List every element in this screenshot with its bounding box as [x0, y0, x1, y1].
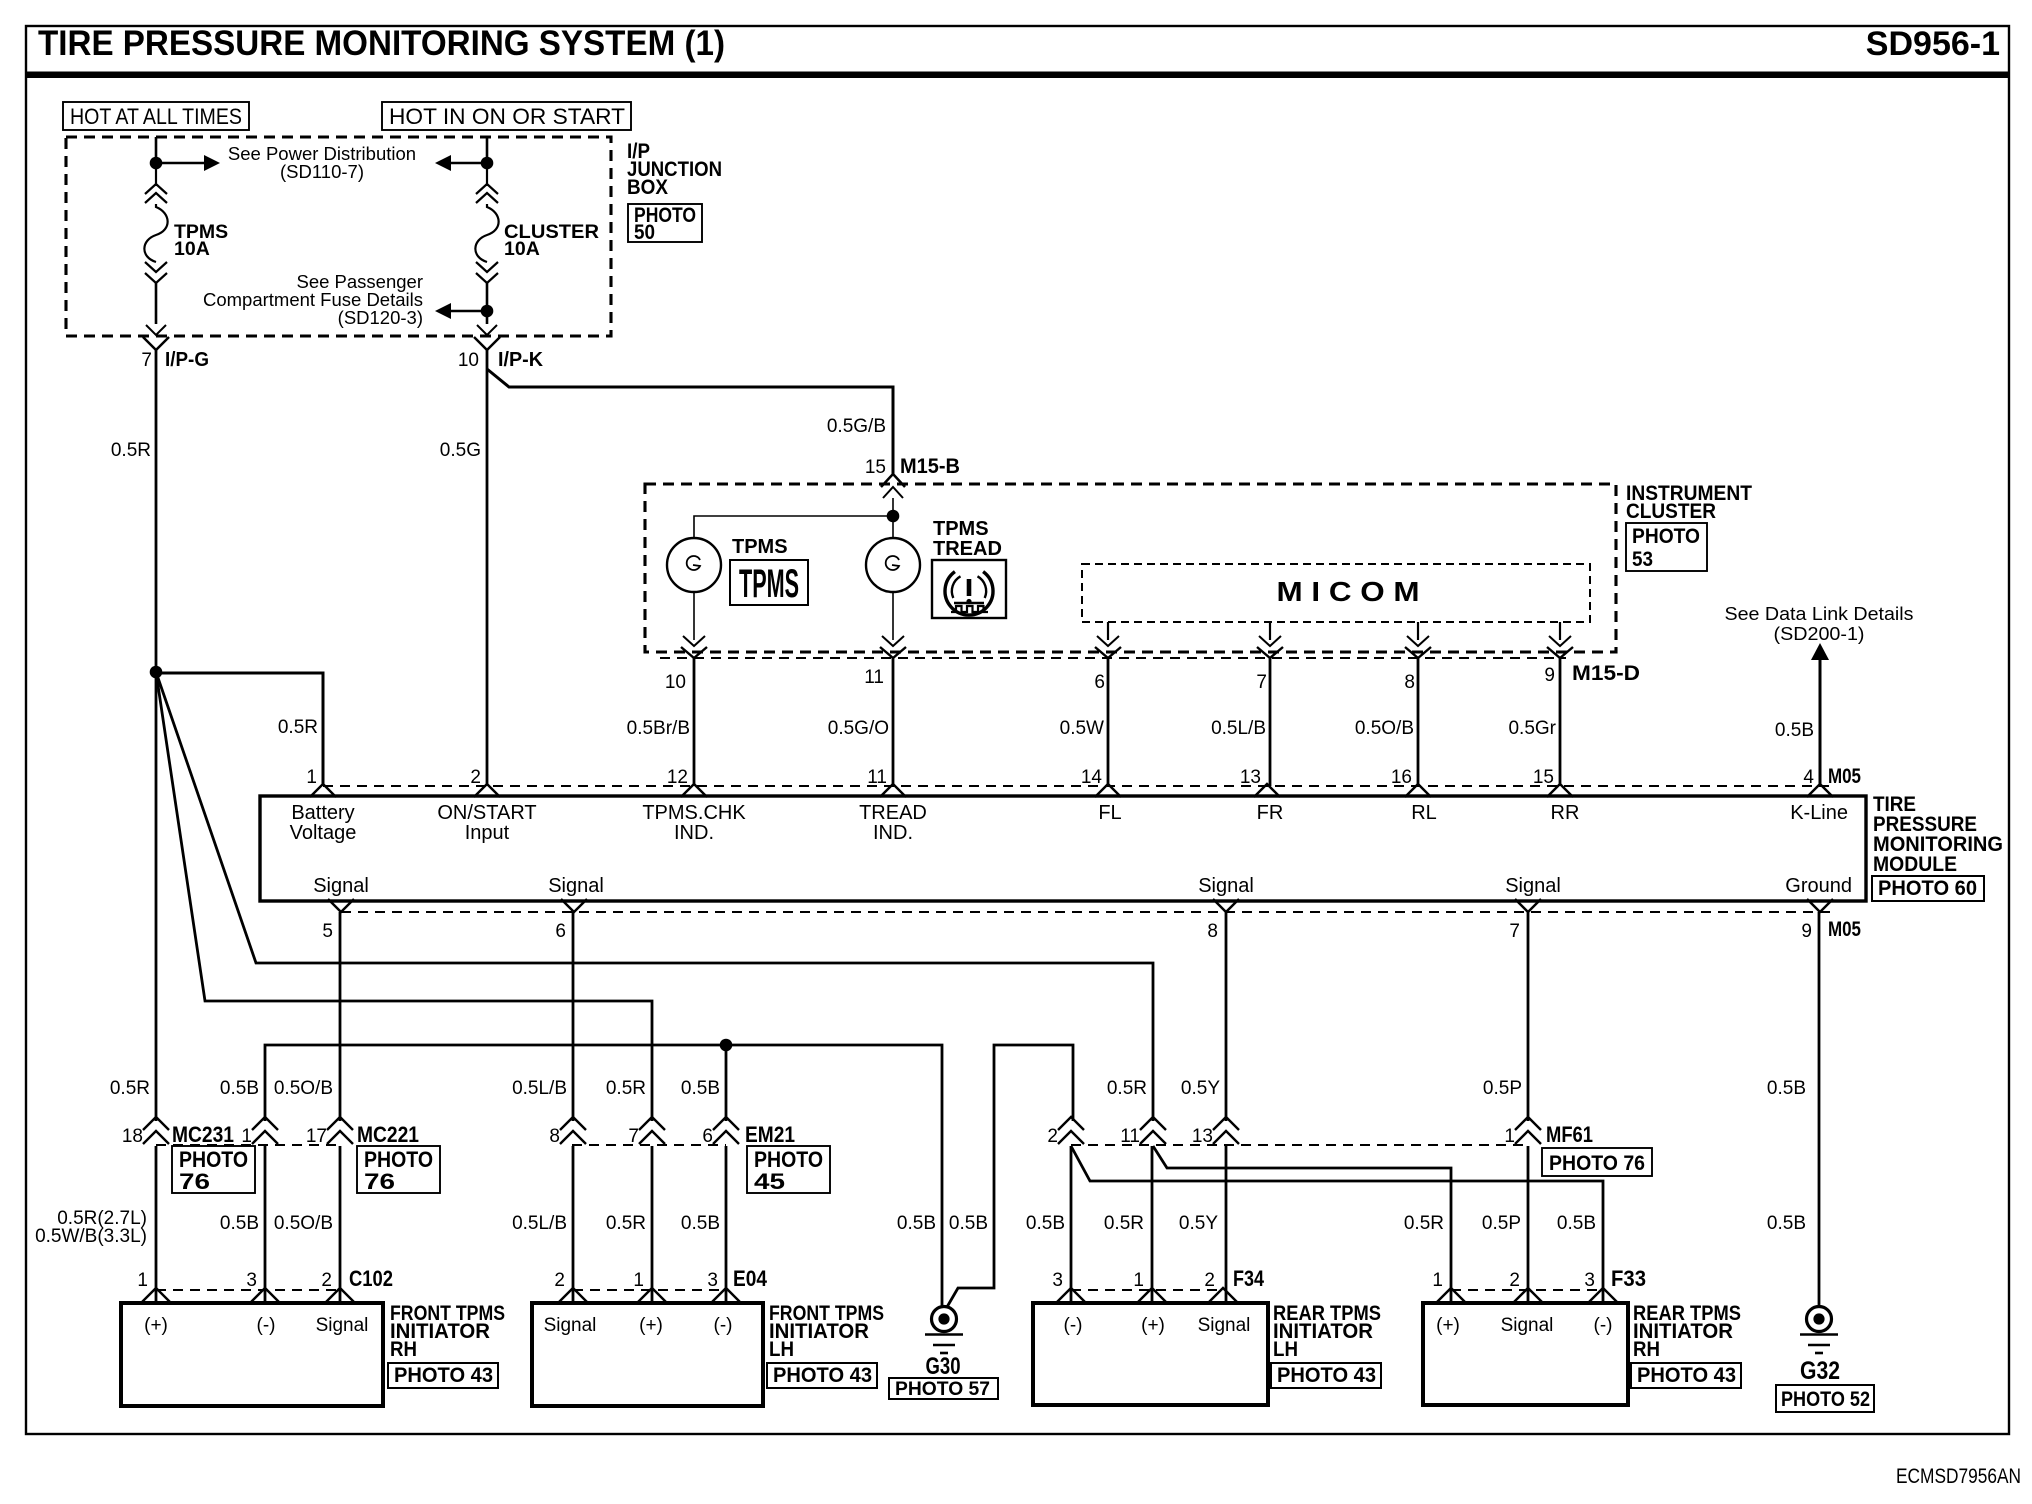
svg-text:11: 11 — [1120, 1126, 1140, 1147]
connector chevron pin 13 — [1213, 1117, 1239, 1130]
connector chevron pin 6 — [713, 1117, 739, 1130]
wire — [892, 522, 894, 539]
ground G32 symbol — [1807, 1307, 1832, 1332]
wire — [486, 283, 489, 305]
svg-text:TPMS.CHK: TPMS.CHK — [642, 802, 746, 824]
connector row M05 top (dashed) — [323, 785, 1832, 787]
svg-text:CLUSTER: CLUSTER — [1626, 500, 1716, 523]
svg-text:IND.: IND. — [674, 822, 714, 844]
wire EM21 p6 drop — [725, 1146, 728, 1303]
wire MF61 pin2 to F33 pin3 — [1071, 1146, 1603, 1303]
junction dot lamp feed — [887, 510, 900, 523]
svg-text:M15-D: M15-D — [1572, 662, 1640, 685]
wire diagonal A to MF61 pin11 — [156, 672, 1153, 1121]
photo 45 box (EM21) — [747, 1146, 830, 1193]
svg-text:0.5B: 0.5B — [1557, 1213, 1596, 1234]
svg-text:0.5R: 0.5R — [606, 1213, 646, 1234]
svg-text:Ground: Ground — [1785, 875, 1852, 897]
connector row MF61 (dashed) — [1071, 1144, 1528, 1146]
wire — [486, 166, 488, 186]
svg-text:2: 2 — [554, 1270, 565, 1291]
wire — [155, 283, 158, 324]
svg-text:(+): (+) — [144, 1315, 168, 1336]
svg-text:Voltage: Voltage — [290, 822, 357, 844]
connector row E04 (dashed) — [573, 1289, 726, 1291]
TPMS module box U1 — [260, 796, 1866, 901]
wire 0.5G/B branch to M15-B — [487, 369, 893, 475]
module pin 2 chevron — [474, 784, 500, 797]
svg-text:Signal: Signal — [313, 875, 369, 897]
svg-text:M05: M05 — [1828, 918, 1861, 941]
svg-text:11: 11 — [867, 767, 887, 788]
svg-text:(-): (-) — [1594, 1315, 1613, 1336]
svg-text:0.5R: 0.5R — [110, 1078, 150, 1099]
connector chevron pin 11 — [1140, 1117, 1166, 1130]
svg-text:E04: E04 — [733, 1266, 768, 1291]
title divider rule — [26, 72, 2009, 79]
svg-text:0.5B: 0.5B — [681, 1213, 720, 1234]
svg-text:11: 11 — [864, 667, 884, 688]
wire — [892, 498, 894, 510]
connector chevron 2 — [325, 1288, 355, 1303]
connector I/P-K pin 10 — [477, 325, 497, 335]
junction dot on TPMS feed — [150, 157, 163, 170]
svg-text:0.5Y: 0.5Y — [1179, 1213, 1218, 1234]
connector chevron 3 — [1588, 1288, 1618, 1303]
svg-text:0.5O/B: 0.5O/B — [274, 1213, 333, 1234]
label HOT AT ALL TIMES — [63, 102, 249, 130]
svg-text:HOT AT ALL TIMES: HOT AT ALL TIMES — [70, 104, 242, 129]
svg-text:2: 2 — [1047, 1126, 1058, 1147]
svg-text:EM21: EM21 — [745, 1122, 795, 1147]
svg-text:8: 8 — [1404, 672, 1415, 693]
connector chevron 1 — [637, 1288, 667, 1303]
connector chevron M15-D — [1405, 647, 1431, 658]
connector chevron pin 1 — [1515, 1117, 1541, 1130]
module pin 16 chevron — [1405, 784, 1431, 797]
wire MC221 p7 drop — [651, 1146, 654, 1303]
svg-text:Input: Input — [465, 822, 510, 844]
module bottom pin 5 chevron — [328, 899, 354, 912]
svg-text:0.5R: 0.5R — [1404, 1213, 1444, 1234]
wire module pin7 to MF61 pin1 — [1527, 912, 1530, 1121]
svg-text:(SD110-7): (SD110-7) — [280, 161, 364, 182]
svg-text:0.5G: 0.5G — [440, 440, 481, 461]
svg-text:See Data Link Details: See Data Link Details — [1725, 603, 1914, 624]
svg-text:Signal: Signal — [1505, 875, 1561, 897]
svg-text:M15-B: M15-B — [900, 455, 960, 478]
connector chevron 3 — [1056, 1288, 1086, 1303]
module bottom pin 8 chevron — [1213, 899, 1239, 912]
svg-text:RH: RH — [390, 1338, 417, 1361]
svg-text:0.5P: 0.5P — [1482, 1213, 1521, 1234]
svg-text:0.5B: 0.5B — [1767, 1213, 1806, 1234]
module pin 13 chevron — [1254, 784, 1280, 797]
svg-text:0.5R: 0.5R — [1104, 1213, 1144, 1234]
instrument cluster box (dashed) — [645, 484, 1616, 652]
wire MF61 p11 drop — [1151, 1146, 1154, 1303]
connector chevron pin 17 — [327, 1117, 353, 1130]
connector chevron 2 — [1208, 1288, 1238, 1303]
svg-text:0.5B: 0.5B — [949, 1213, 988, 1234]
connector row MC231/MC221 (dashed) — [156, 1144, 339, 1146]
junction dot ground bus — [720, 1039, 733, 1052]
ground G30 symbol — [932, 1307, 957, 1332]
svg-text:Battery: Battery — [291, 802, 354, 824]
photo 52 box (G32) — [1776, 1385, 1874, 1412]
svg-text:0.5O/B: 0.5O/B — [1355, 718, 1414, 739]
svg-text:6: 6 — [702, 1126, 713, 1147]
svg-text:3: 3 — [707, 1270, 718, 1291]
svg-text:RR: RR — [1551, 802, 1580, 824]
svg-text:F33: F33 — [1611, 1266, 1646, 1291]
wire from TREAD lamp to pin — [892, 592, 894, 640]
svg-text:53: 53 — [1632, 548, 1653, 571]
svg-text:(-): (-) — [1064, 1315, 1083, 1336]
svg-text:14: 14 — [1081, 767, 1103, 788]
wire from MICOM RR output — [1559, 622, 1561, 640]
svg-text:0.5B: 0.5B — [220, 1078, 259, 1099]
svg-text:0.5W: 0.5W — [1060, 718, 1104, 739]
svg-text:TPMS: TPMS — [732, 536, 788, 558]
wire to TPMS lamp — [694, 516, 887, 539]
photo 57 box (G30) — [889, 1378, 998, 1399]
svg-text:TREAD: TREAD — [859, 802, 927, 824]
svg-text:7: 7 — [1509, 921, 1520, 942]
svg-text:RL: RL — [1411, 802, 1437, 824]
wire 0.5O/B — [1417, 658, 1420, 786]
svg-text:7: 7 — [628, 1126, 639, 1147]
svg-text:(SD200-1): (SD200-1) — [1774, 623, 1865, 644]
svg-text:8: 8 — [1207, 921, 1218, 942]
svg-text:7: 7 — [1256, 672, 1267, 693]
photo 76 box (MC231) — [172, 1146, 255, 1193]
svg-text:0.5L/B: 0.5L/B — [512, 1078, 567, 1099]
fuse CLUSTER 10A symbol — [476, 184, 498, 194]
wire MF61 p13 drop — [1225, 1146, 1228, 1303]
svg-text:0.5R: 0.5R — [606, 1078, 646, 1099]
svg-text:3: 3 — [1584, 1270, 1595, 1291]
svg-text:4: 4 — [1803, 767, 1814, 788]
module pin 15 chevron — [1547, 784, 1573, 797]
svg-text:1: 1 — [241, 1126, 252, 1147]
connector row F34 (dashed) — [1071, 1289, 1223, 1291]
photo 76 box (MF61) — [1542, 1148, 1652, 1176]
svg-text:Signal: Signal — [1501, 1315, 1554, 1336]
photo 76 box (MC221) — [357, 1146, 440, 1193]
connector chevron pin 18 — [143, 1117, 169, 1130]
svg-text:0.5R: 0.5R — [278, 717, 318, 738]
svg-text:15: 15 — [865, 457, 886, 478]
svg-text:2: 2 — [1204, 1270, 1215, 1291]
connector chevron M15-D — [1095, 647, 1121, 658]
junction dot SD120 tap — [481, 305, 494, 318]
fuse TPMS 10A symbol — [145, 184, 167, 194]
svg-text:BOX: BOX — [627, 176, 668, 199]
svg-text:18: 18 — [122, 1126, 143, 1147]
svg-text:0.5Br/B: 0.5Br/B — [627, 718, 690, 739]
connector chevron 1 — [141, 1288, 171, 1303]
module pin 11 chevron — [880, 784, 906, 797]
junction dot battery node — [150, 666, 163, 679]
connector chevron 2 — [558, 1288, 588, 1303]
svg-text:FL: FL — [1098, 802, 1121, 824]
connector row M15-D (dashed) — [660, 657, 1566, 659]
svg-text:0.5O/B: 0.5O/B — [274, 1078, 333, 1099]
svg-text:M I C O M: M I C O M — [1277, 576, 1420, 607]
module bottom pin 7 chevron — [1515, 899, 1541, 912]
svg-text:1: 1 — [1432, 1270, 1443, 1291]
wire 0.5Gr — [1559, 658, 1562, 786]
wire ground bus to G30 — [265, 1045, 942, 1308]
connector row F33 (dashed) — [1451, 1289, 1603, 1291]
module pin 4 chevron — [1807, 784, 1833, 797]
connector chevron M15-D — [1257, 647, 1283, 658]
svg-text:M05: M05 — [1828, 765, 1861, 788]
connector chevron 2 — [1513, 1288, 1543, 1303]
svg-text:(-): (-) — [257, 1315, 276, 1336]
svg-text:Signal: Signal — [544, 1315, 597, 1336]
svg-text:1: 1 — [633, 1270, 644, 1291]
svg-text:9: 9 — [1544, 665, 1555, 686]
module bottom pin 9 chevron — [1807, 899, 1833, 912]
wire 0.5G to module pin2 — [486, 350, 489, 786]
connector chevron 3 — [250, 1288, 280, 1303]
wire 0.5L/B — [1269, 658, 1272, 786]
svg-text:0.5R: 0.5R — [1107, 1078, 1147, 1099]
lamp TPMS indicator — [667, 538, 721, 592]
connector chevron 3 — [711, 1288, 741, 1303]
svg-text:HOT IN ON OR START: HOT IN ON OR START — [389, 104, 625, 129]
svg-text:17: 17 — [306, 1126, 327, 1147]
wire MF61 p1 drop — [1527, 1146, 1530, 1303]
connector chevron pin 1 — [252, 1117, 278, 1130]
arrow to fuse details (left) — [435, 303, 451, 319]
svg-text:PHOTO 43: PHOTO 43 — [773, 1364, 872, 1387]
svg-text:8: 8 — [549, 1126, 560, 1147]
svg-text:12: 12 — [667, 767, 688, 788]
svg-text:Signal: Signal — [1198, 1315, 1251, 1336]
photo 53 box — [1626, 523, 1707, 571]
svg-text:C102: C102 — [349, 1266, 393, 1291]
svg-text:LH: LH — [769, 1338, 794, 1361]
I/P junction box (dashed) — [66, 137, 611, 336]
connector chevron M15-D — [1547, 647, 1573, 658]
svg-text:PHOTO: PHOTO — [1632, 525, 1700, 548]
svg-text:0.5R: 0.5R — [111, 440, 151, 461]
connector chevron pin 2 — [1058, 1117, 1084, 1130]
svg-text:Signal: Signal — [316, 1315, 369, 1336]
wire module pin5 to MC221 pin17 — [339, 912, 342, 1121]
arrow from cluster feed (left) — [435, 155, 451, 171]
wire G30 second leg — [947, 1045, 1073, 1307]
wire — [155, 166, 157, 186]
svg-text:PHOTO 43: PHOTO 43 — [1277, 1364, 1376, 1387]
svg-text:IND.: IND. — [873, 822, 913, 844]
wire MC231 p1 drop — [264, 1146, 267, 1303]
wire 0.5Br/B — [693, 658, 696, 786]
svg-text:15: 15 — [1533, 767, 1554, 788]
svg-text:ON/START: ON/START — [437, 802, 536, 824]
svg-text:(+): (+) — [639, 1315, 663, 1336]
label box TPMS — [730, 560, 808, 605]
svg-text:76: 76 — [179, 1169, 210, 1194]
svg-text:LH: LH — [1273, 1338, 1298, 1361]
svg-text:TREAD: TREAD — [933, 538, 1002, 560]
connector chevron pin 7 — [639, 1117, 665, 1130]
wire 0.5G/O — [892, 658, 895, 786]
svg-text:76: 76 — [364, 1169, 395, 1194]
wire from TPMS lamp to pin — [693, 592, 695, 640]
svg-text:0.5L/B: 0.5L/B — [1211, 718, 1266, 739]
svg-text:TPMS: TPMS — [933, 518, 989, 540]
wire module pin9 to G32 — [1818, 912, 1821, 1308]
svg-text:1: 1 — [1504, 1126, 1515, 1147]
connector I/P-G pin 7 — [146, 325, 166, 335]
svg-text:I/P-G: I/P-G — [165, 349, 209, 371]
photo 43 box (LH front) — [767, 1363, 877, 1388]
wire from MICOM FR output — [1269, 622, 1271, 640]
svg-text:7: 7 — [141, 350, 152, 371]
module bottom pin 6 chevron — [561, 899, 587, 912]
svg-text:0.5B: 0.5B — [1026, 1213, 1065, 1234]
module pin 12 chevron — [681, 784, 707, 797]
wire from MICOM RL output — [1417, 622, 1419, 640]
svg-text:PHOTO 43: PHOTO 43 — [1637, 1364, 1736, 1387]
svg-text:3: 3 — [246, 1270, 257, 1291]
svg-text:1: 1 — [137, 1270, 148, 1291]
label HOT IN ON OR START — [382, 102, 631, 130]
wire diagonal B to MC221 pin7 — [156, 672, 652, 1121]
wire stub to fuse CLUSTER — [486, 137, 489, 160]
svg-text:50: 50 — [634, 221, 655, 244]
svg-text:SD956-1: SD956-1 — [1866, 25, 2000, 63]
connector row C102 (dashed) — [156, 1289, 339, 1291]
svg-text:2: 2 — [470, 767, 481, 788]
connector chevron M15-D — [681, 647, 707, 658]
svg-text:6: 6 — [1094, 672, 1105, 693]
svg-text:10A: 10A — [504, 238, 540, 260]
module pin 14 chevron — [1095, 784, 1121, 797]
svg-text:2: 2 — [1509, 1270, 1520, 1291]
svg-text:2: 2 — [321, 1270, 332, 1291]
svg-text:Signal: Signal — [548, 875, 604, 897]
photo 43 box (RH front) — [388, 1363, 498, 1388]
wire — [486, 317, 489, 324]
K-line wire with up arrow — [1811, 643, 1829, 660]
svg-text:(SD120-3): (SD120-3) — [338, 307, 423, 328]
wire EM21 p8 drop — [572, 1146, 575, 1303]
svg-text:MC231: MC231 — [172, 1122, 234, 1147]
connector row M05 bottom (dashed) — [341, 911, 1832, 913]
tread warning icon box — [932, 560, 1006, 618]
svg-text:0.5L/B: 0.5L/B — [512, 1213, 567, 1234]
svg-text:PHOTO 43: PHOTO 43 — [394, 1364, 493, 1387]
svg-text:0.5Y: 0.5Y — [1181, 1078, 1220, 1099]
svg-text:MODULE: MODULE — [1873, 853, 1957, 876]
svg-text:RH: RH — [1633, 1338, 1660, 1361]
front TPMS initiator LH box — [532, 1303, 763, 1406]
svg-text:13: 13 — [1192, 1126, 1213, 1147]
wire MC221 p17 drop — [339, 1146, 342, 1303]
svg-text:FR: FR — [1257, 802, 1284, 824]
wire 0.5W — [1107, 658, 1110, 786]
svg-text:0.5B: 0.5B — [681, 1078, 720, 1099]
svg-text:16: 16 — [1391, 767, 1412, 788]
svg-text:10: 10 — [458, 350, 479, 371]
photo 43 box (RH rear) — [1631, 1363, 1741, 1388]
svg-text:45: 45 — [754, 1169, 785, 1194]
wire from MICOM FL output — [1107, 622, 1109, 640]
svg-text:10: 10 — [665, 672, 686, 693]
svg-text:3: 3 — [1052, 1270, 1063, 1291]
wire battery to module pin1 — [156, 673, 323, 786]
svg-text:G30: G30 — [926, 1353, 961, 1380]
svg-text:PHOTO 52: PHOTO 52 — [1781, 1388, 1870, 1411]
wire EM21 pin6 drop — [725, 1045, 728, 1121]
connector chevron 1 — [1137, 1288, 1167, 1303]
svg-text:0.5Gr: 0.5Gr — [1508, 718, 1556, 739]
photo 50 box — [628, 204, 702, 242]
connector row EM21 (dashed) — [572, 1144, 726, 1146]
junction dot on CLUSTER feed — [481, 157, 494, 170]
svg-text:I/P-K: I/P-K — [498, 349, 544, 371]
connector chevron pin 8 — [560, 1117, 586, 1130]
wire MF61 p2 drop — [1070, 1146, 1073, 1303]
svg-text:(-): (-) — [714, 1315, 733, 1336]
svg-text:0.5P: 0.5P — [1483, 1078, 1522, 1099]
svg-text:0.5G/B: 0.5G/B — [827, 416, 886, 437]
wire 0.5R main left — [155, 350, 158, 1121]
wire module pin6 to EM21 pin8 — [572, 912, 575, 1121]
svg-text:13: 13 — [1240, 767, 1261, 788]
svg-text:0.5W/B(3.3L): 0.5W/B(3.3L) — [35, 1226, 147, 1247]
wire module pin8 to MF61 pin13 — [1225, 912, 1228, 1121]
rear TPMS initiator LH box — [1033, 1303, 1268, 1405]
photo 60 box — [1872, 876, 1984, 901]
svg-text:TIRE PRESSURE MONITORING SYSTE: TIRE PRESSURE MONITORING SYSTEM (1) — [38, 23, 725, 63]
photo 43 box (LH rear) — [1271, 1363, 1381, 1388]
svg-text:(+): (+) — [1436, 1315, 1460, 1336]
svg-text:0.5B: 0.5B — [1775, 720, 1814, 741]
wire stub to fuse TPMS — [155, 137, 158, 160]
svg-text:PHOTO 57: PHOTO 57 — [895, 1378, 990, 1400]
svg-text:F34: F34 — [1233, 1266, 1265, 1291]
svg-text:0.5G/O: 0.5G/O — [828, 718, 889, 739]
svg-text:Signal: Signal — [1198, 875, 1254, 897]
svg-text:9: 9 — [1801, 921, 1812, 942]
svg-text:PHOTO 60: PHOTO 60 — [1878, 877, 1977, 900]
connector chevron 1 — [1436, 1288, 1466, 1303]
svg-text:ECMSD7956AN: ECMSD7956AN — [1896, 1465, 2021, 1488]
rear TPMS initiator RH box — [1423, 1303, 1628, 1405]
front TPMS initiator RH box — [121, 1303, 383, 1406]
module pin 1 chevron — [310, 784, 336, 797]
svg-text:TPMS: TPMS — [739, 562, 799, 606]
svg-text:MC221: MC221 — [357, 1122, 419, 1147]
svg-text:5: 5 — [322, 921, 333, 942]
svg-text:1: 1 — [306, 767, 317, 788]
svg-text:(+): (+) — [1141, 1315, 1165, 1336]
arrow to power distribution (right) — [162, 162, 204, 164]
wire MF61 pin11 to F33 pin1 — [1153, 1146, 1451, 1303]
svg-text:MF61: MF61 — [1546, 1122, 1593, 1147]
svg-text:PHOTO 76: PHOTO 76 — [1549, 1152, 1645, 1175]
lamp TPMS TREAD indicator — [866, 538, 920, 592]
svg-text:1: 1 — [1133, 1270, 1144, 1291]
svg-text:10A: 10A — [174, 238, 210, 260]
connector chevron M15-D — [880, 647, 906, 658]
